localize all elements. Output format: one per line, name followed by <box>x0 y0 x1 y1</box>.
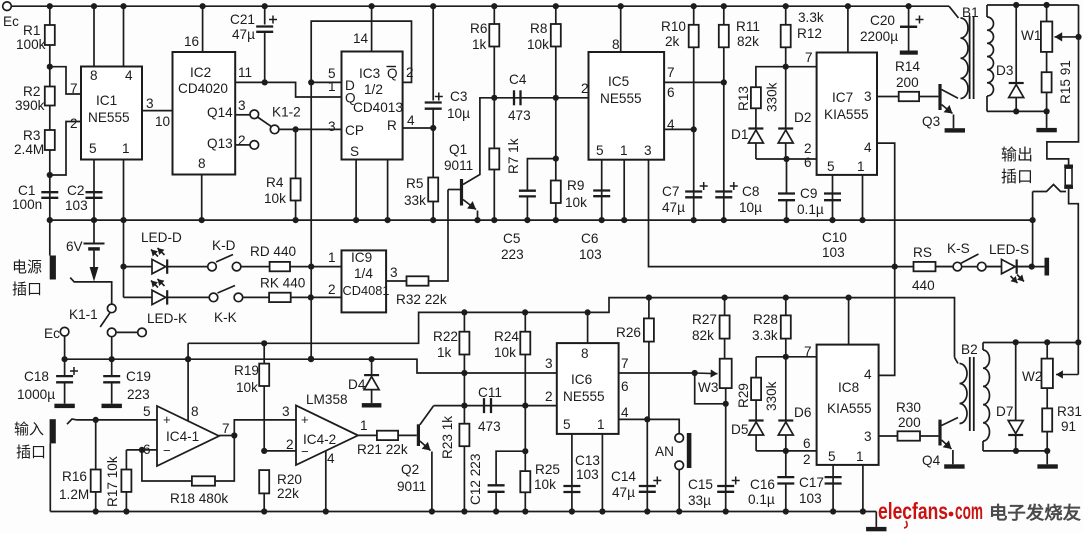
svg-text:4: 4 <box>125 68 133 83</box>
svg-text:9011: 9011 <box>444 158 473 173</box>
svg-text:1: 1 <box>857 159 865 174</box>
svg-text:K-D: K-D <box>212 238 236 253</box>
svg-text:LED-D: LED-D <box>141 230 182 245</box>
svg-text:K-S: K-S <box>947 241 970 256</box>
svg-text:3: 3 <box>282 404 290 419</box>
svg-text:8: 8 <box>90 68 98 83</box>
svg-text:10: 10 <box>155 114 171 129</box>
svg-text:RK 440: RK 440 <box>260 276 306 291</box>
svg-text:10k: 10k <box>236 380 258 395</box>
svg-text:C7: C7 <box>662 184 679 199</box>
svg-text:7: 7 <box>804 344 812 359</box>
svg-text:2: 2 <box>545 389 553 404</box>
svg-text:R32 22k: R32 22k <box>396 292 447 307</box>
svg-text:C16: C16 <box>750 477 775 492</box>
svg-text:1/4: 1/4 <box>354 266 373 281</box>
svg-text:C20: C20 <box>870 13 895 28</box>
svg-text:插口: 插口 <box>1001 168 1033 186</box>
svg-text:4: 4 <box>407 113 415 128</box>
svg-text:R19: R19 <box>234 363 259 378</box>
svg-text:4: 4 <box>621 405 629 420</box>
svg-text:R22: R22 <box>433 329 458 344</box>
svg-text:3: 3 <box>864 89 872 104</box>
svg-text:Q1: Q1 <box>449 142 467 157</box>
svg-text:KIA555: KIA555 <box>824 107 869 122</box>
svg-text:Q14: Q14 <box>207 105 233 120</box>
svg-text:200: 200 <box>896 75 919 90</box>
svg-text:C4: C4 <box>509 72 527 87</box>
svg-text:6: 6 <box>621 379 629 394</box>
svg-text:C19: C19 <box>126 369 151 384</box>
svg-text:3.3k: 3.3k <box>752 328 778 343</box>
svg-text:C6: C6 <box>581 231 598 246</box>
svg-text:103: 103 <box>579 247 602 262</box>
svg-text:440: 440 <box>912 278 935 293</box>
svg-text:Q: Q <box>345 91 356 106</box>
svg-text:200: 200 <box>898 415 921 430</box>
svg-text:R16: R16 <box>62 469 87 484</box>
svg-text:R30: R30 <box>896 400 921 415</box>
svg-text:1: 1 <box>328 250 336 265</box>
svg-text:NE555: NE555 <box>88 110 130 125</box>
svg-text:8: 8 <box>581 346 589 361</box>
svg-text:R13: R13 <box>736 86 751 111</box>
svg-text:5: 5 <box>563 417 571 432</box>
svg-text:D2: D2 <box>794 110 811 125</box>
svg-text:Q2: Q2 <box>401 462 419 477</box>
svg-text:1/2: 1/2 <box>364 82 383 97</box>
svg-text:2200µ: 2200µ <box>860 29 898 44</box>
svg-text:电源: 电源 <box>12 259 42 276</box>
svg-text:R14: R14 <box>895 59 920 74</box>
svg-text:1.2M: 1.2M <box>59 487 89 502</box>
svg-text:5: 5 <box>828 449 836 464</box>
svg-text:10µ: 10µ <box>739 200 762 215</box>
svg-text:C10: C10 <box>822 230 847 245</box>
svg-text:R7 1k: R7 1k <box>506 138 521 174</box>
svg-text:W2: W2 <box>1022 369 1042 384</box>
svg-text:RD 440: RD 440 <box>250 244 297 259</box>
svg-text:3: 3 <box>864 429 872 444</box>
svg-text:47µ: 47µ <box>612 485 635 500</box>
svg-text:8: 8 <box>612 37 620 52</box>
svg-text:R15 91: R15 91 <box>1058 60 1073 104</box>
svg-text:C12 223: C12 223 <box>468 454 483 505</box>
svg-text:2: 2 <box>328 282 336 297</box>
svg-text:IC7: IC7 <box>832 90 853 105</box>
svg-text:K-K: K-K <box>214 310 237 325</box>
svg-text:91: 91 <box>1061 419 1076 434</box>
svg-text:10k: 10k <box>494 345 516 360</box>
svg-text:IC4-2: IC4-2 <box>303 432 336 447</box>
svg-text:103: 103 <box>822 245 845 260</box>
svg-text:2: 2 <box>238 133 246 148</box>
svg-text:3: 3 <box>644 143 652 158</box>
svg-text:7: 7 <box>805 50 813 65</box>
svg-text:2k: 2k <box>665 34 680 49</box>
svg-text:8: 8 <box>198 156 206 171</box>
svg-text:11: 11 <box>238 65 252 80</box>
svg-text:7: 7 <box>222 421 230 436</box>
svg-text:3: 3 <box>545 356 553 371</box>
svg-text:C8: C8 <box>742 184 759 199</box>
svg-text:LM358: LM358 <box>306 392 348 407</box>
svg-text:0.1µ: 0.1µ <box>797 202 824 217</box>
svg-text:D4: D4 <box>348 377 366 392</box>
svg-text:CP: CP <box>345 123 364 138</box>
svg-text:1000µ: 1000µ <box>17 387 55 402</box>
svg-text:D7: D7 <box>996 404 1013 419</box>
svg-text:R21 22k: R21 22k <box>357 442 408 457</box>
svg-text:1k: 1k <box>472 37 487 52</box>
svg-text:3: 3 <box>238 98 246 113</box>
svg-text:AN: AN <box>655 444 674 459</box>
svg-text:473: 473 <box>478 419 501 434</box>
svg-text:+: + <box>301 412 309 427</box>
svg-text:33k: 33k <box>404 193 426 208</box>
svg-text:1: 1 <box>360 418 368 433</box>
svg-text:4: 4 <box>327 451 335 466</box>
svg-text:4: 4 <box>864 367 872 382</box>
svg-text:插口: 插口 <box>16 444 46 461</box>
svg-text:47µ: 47µ <box>232 27 255 42</box>
svg-text:R6: R6 <box>470 21 487 36</box>
svg-text:R18 480k: R18 480k <box>170 491 228 506</box>
svg-text:IC5: IC5 <box>608 74 629 89</box>
svg-text:K1-2: K1-2 <box>272 105 301 120</box>
svg-text:C5: C5 <box>503 231 520 246</box>
svg-text:5: 5 <box>89 141 97 156</box>
svg-text:IC6: IC6 <box>571 372 592 387</box>
svg-text:R1: R1 <box>23 23 40 38</box>
svg-text:14: 14 <box>353 31 369 46</box>
svg-text:C9: C9 <box>800 186 817 201</box>
svg-text:输入: 输入 <box>14 421 44 438</box>
svg-text:S: S <box>350 144 359 159</box>
svg-text:IC2: IC2 <box>190 65 211 80</box>
svg-text:C11: C11 <box>478 385 502 400</box>
svg-text:390k: 390k <box>15 98 45 113</box>
svg-text:3: 3 <box>328 119 336 134</box>
svg-text:C3: C3 <box>450 89 467 104</box>
svg-text:Ec: Ec <box>44 326 60 341</box>
svg-text:IC1: IC1 <box>96 93 117 108</box>
svg-text:103: 103 <box>799 491 822 506</box>
svg-text:elecfans: elecfans <box>878 498 948 524</box>
svg-text:R29: R29 <box>736 383 751 408</box>
svg-text:KIA555: KIA555 <box>827 401 872 416</box>
svg-text:2.4M: 2.4M <box>14 142 44 157</box>
svg-text:D5: D5 <box>731 422 748 437</box>
svg-text:输出: 输出 <box>1001 146 1033 164</box>
svg-text:330k: 330k <box>765 82 780 112</box>
svg-text:R28: R28 <box>753 312 778 327</box>
svg-text:1k: 1k <box>437 345 452 360</box>
svg-text:5: 5 <box>596 143 604 158</box>
svg-text:5: 5 <box>143 404 151 419</box>
svg-text:3: 3 <box>146 96 154 111</box>
svg-text:6V: 6V <box>66 239 83 254</box>
svg-text:R3: R3 <box>23 128 40 143</box>
svg-text:R5: R5 <box>406 176 423 191</box>
svg-text:16: 16 <box>184 34 199 49</box>
svg-text:10k: 10k <box>264 191 286 206</box>
svg-text:7: 7 <box>70 81 78 96</box>
svg-text:IC3: IC3 <box>359 66 380 81</box>
svg-text:3: 3 <box>390 265 398 280</box>
svg-text:10µ: 10µ <box>447 106 470 121</box>
svg-text:223: 223 <box>127 387 150 402</box>
svg-text:2: 2 <box>406 65 414 80</box>
svg-text:+: + <box>163 412 171 427</box>
svg-text:C1: C1 <box>18 183 35 198</box>
svg-text:NE555: NE555 <box>563 389 605 404</box>
svg-text:100k: 100k <box>16 37 46 52</box>
svg-text:82k: 82k <box>737 34 759 49</box>
svg-text:1: 1 <box>597 417 605 432</box>
svg-text:1: 1 <box>328 79 336 94</box>
svg-text:10k: 10k <box>527 37 549 52</box>
svg-text:D3: D3 <box>996 63 1013 78</box>
svg-text:R20: R20 <box>277 472 302 487</box>
svg-text:2: 2 <box>581 81 589 96</box>
svg-text:R10: R10 <box>661 19 686 34</box>
svg-text:com: com <box>955 498 983 524</box>
svg-text:223: 223 <box>501 247 524 262</box>
svg-text:Q: Q <box>387 66 398 81</box>
svg-text:10k: 10k <box>534 477 556 492</box>
svg-text:R4: R4 <box>266 175 284 190</box>
svg-text:22k: 22k <box>277 486 299 501</box>
svg-text:D6: D6 <box>794 405 811 420</box>
svg-text:330k: 330k <box>764 381 779 411</box>
svg-text:10k: 10k <box>565 195 587 210</box>
svg-text:RS: RS <box>913 245 932 260</box>
svg-text:K1-1: K1-1 <box>69 307 98 322</box>
svg-text:5: 5 <box>827 159 835 174</box>
svg-text:103: 103 <box>576 467 599 482</box>
svg-text:IC9: IC9 <box>351 250 372 265</box>
svg-text:R12: R12 <box>797 26 822 41</box>
svg-text:R17 10k: R17 10k <box>105 456 120 507</box>
svg-text:33µ: 33µ <box>688 493 711 508</box>
svg-text:C17: C17 <box>799 475 824 490</box>
svg-text:4: 4 <box>864 140 872 155</box>
svg-text:47µ: 47µ <box>662 200 685 215</box>
svg-text:R8: R8 <box>530 21 547 36</box>
svg-text:C21: C21 <box>230 12 255 27</box>
svg-text:R9: R9 <box>567 178 584 193</box>
svg-text:6: 6 <box>667 85 675 100</box>
svg-text:2: 2 <box>70 116 78 131</box>
svg-text:82k: 82k <box>692 328 714 343</box>
svg-text:C15: C15 <box>688 477 713 492</box>
svg-text:W3: W3 <box>698 380 718 395</box>
svg-text:Q3: Q3 <box>922 114 940 129</box>
svg-text:R: R <box>387 118 397 133</box>
svg-text:LED-S: LED-S <box>989 242 1029 257</box>
svg-text:CD4081: CD4081 <box>343 283 390 298</box>
svg-text:C2: C2 <box>67 183 84 198</box>
svg-text:NE555: NE555 <box>600 91 642 106</box>
svg-text:1: 1 <box>620 143 628 158</box>
svg-text:7: 7 <box>621 356 629 371</box>
svg-text:LED-K: LED-K <box>147 311 187 326</box>
svg-text:插口: 插口 <box>12 281 42 298</box>
svg-text:R11: R11 <box>736 19 760 34</box>
svg-text:103: 103 <box>65 198 88 213</box>
svg-text:C14: C14 <box>611 469 636 484</box>
svg-text:R31: R31 <box>1057 404 1082 419</box>
svg-text:R2: R2 <box>23 84 40 99</box>
svg-text:7: 7 <box>667 65 675 80</box>
svg-text:6: 6 <box>804 155 812 170</box>
svg-text:CD4013: CD4013 <box>353 100 403 115</box>
svg-text:−: − <box>163 443 171 458</box>
svg-text:100n: 100n <box>12 197 42 212</box>
svg-text:电子发烧友: 电子发烧友 <box>989 503 1082 523</box>
svg-text:1: 1 <box>122 141 130 156</box>
svg-text:R27: R27 <box>692 312 717 327</box>
svg-text:6: 6 <box>803 436 811 451</box>
svg-text:IC4-1: IC4-1 <box>166 429 199 444</box>
svg-text:W1: W1 <box>1021 28 1041 43</box>
svg-text:1: 1 <box>856 449 864 464</box>
svg-text:IC8: IC8 <box>838 380 859 395</box>
svg-text:R26: R26 <box>616 325 641 340</box>
svg-text:C18: C18 <box>24 369 49 384</box>
svg-text:2: 2 <box>804 141 812 156</box>
svg-text:2: 2 <box>803 452 811 467</box>
svg-text:Ec: Ec <box>3 14 19 29</box>
svg-text:C13: C13 <box>575 453 600 468</box>
svg-text:2: 2 <box>286 437 294 452</box>
svg-text:CD4020: CD4020 <box>178 81 228 96</box>
svg-text:R25: R25 <box>535 462 560 477</box>
svg-text:9011: 9011 <box>397 479 426 494</box>
svg-text:8: 8 <box>191 404 199 419</box>
svg-text:0.1µ: 0.1µ <box>748 492 775 507</box>
svg-text:D1: D1 <box>731 127 748 142</box>
svg-text:473: 473 <box>508 108 531 123</box>
svg-text:R23 1k: R23 1k <box>440 416 455 459</box>
svg-text:R24: R24 <box>494 329 519 344</box>
svg-text:Q13: Q13 <box>207 136 233 151</box>
svg-text:3.3k: 3.3k <box>798 10 824 25</box>
svg-text:Q4: Q4 <box>922 453 941 468</box>
svg-text:B2: B2 <box>961 342 978 357</box>
